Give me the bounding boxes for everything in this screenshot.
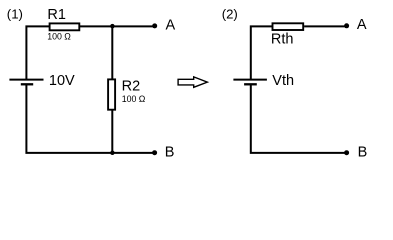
svg-text:R1: R1 xyxy=(47,7,66,23)
wire battery Vth+ to Rth xyxy=(251,26,273,79)
node A dot (1) xyxy=(152,23,157,28)
label R1 xyxy=(47,7,66,23)
svg-text:100 Ω: 100 Ω xyxy=(47,31,71,41)
battery V1 short plate xyxy=(21,83,33,85)
resistor Rth xyxy=(273,23,304,30)
label R2 xyxy=(122,78,141,94)
svg-text:A: A xyxy=(166,17,176,33)
circuit (2) label xyxy=(222,6,238,21)
node A label (1) xyxy=(166,17,176,33)
battery V1 long plate xyxy=(9,79,43,81)
node A dot (2) xyxy=(344,23,349,28)
wire Rth to node A xyxy=(304,25,344,27)
svg-text:10V: 10V xyxy=(49,73,75,89)
node A label (2) xyxy=(357,17,367,33)
wire junction to R2 xyxy=(111,26,113,79)
label Rth xyxy=(271,32,294,48)
node B dot (1) xyxy=(152,150,157,155)
svg-text:R2: R2 xyxy=(122,78,141,94)
wire battery- to node B xyxy=(26,84,153,153)
svg-text:Rth: Rth xyxy=(271,32,294,48)
svg-text:A: A xyxy=(357,17,367,33)
circuit (1) label xyxy=(7,6,23,21)
junction top xyxy=(110,24,115,29)
wire R2 to bottom junction xyxy=(111,110,113,153)
resistor R2 xyxy=(108,79,115,109)
svg-text:Vth: Vth xyxy=(272,73,294,89)
svg-text:100 Ω: 100 Ω xyxy=(122,94,146,104)
battery Vth label xyxy=(272,73,294,89)
wire R1 to node A xyxy=(80,25,154,27)
battery Vth long plate xyxy=(233,79,267,81)
value 100 ohm (R1) xyxy=(47,31,71,41)
svg-text:(2): (2) xyxy=(222,6,238,21)
wire battery Vth- to node B xyxy=(251,84,345,153)
svg-text:B: B xyxy=(165,145,175,161)
battery V1 value 10V xyxy=(49,73,75,89)
wire battery+ to R1 xyxy=(26,26,49,79)
battery Vth short plate xyxy=(244,83,257,85)
resistor R1 xyxy=(50,23,80,30)
node B dot (2) xyxy=(344,150,349,155)
svg-text:B: B xyxy=(358,145,368,161)
junction bottom xyxy=(110,151,115,156)
node B label (1) xyxy=(165,145,175,161)
svg-text:(1): (1) xyxy=(7,6,23,21)
node B label (2) xyxy=(358,145,368,161)
value 100 ohm (R2) xyxy=(122,94,146,104)
implication arrow xyxy=(178,77,207,87)
